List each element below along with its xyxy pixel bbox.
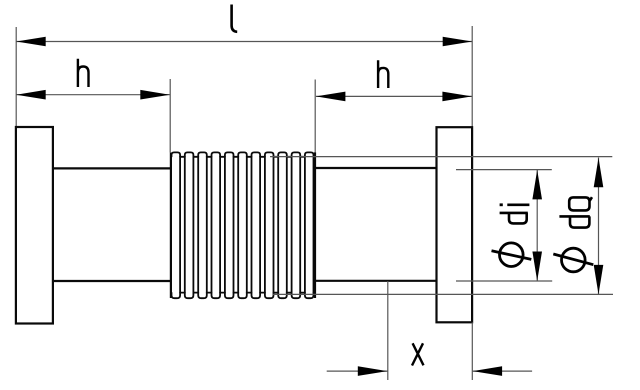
extension line right (l / h-right datum) [471,26,473,127]
dimension l line [16,41,472,43]
dimension da line [598,158,600,295]
label di : letter d (rotated) [500,213,528,224]
thread root segments top [180,156,305,158]
label da : diameter symbol [562,248,586,272]
label di : letter i (rotated) [500,203,503,206]
dimension l arrow right [443,37,473,47]
dimension da arrow down [594,265,604,295]
extension line da top [270,156,612,158]
right flange [437,127,473,322]
thread crest arcs bottom [172,292,314,298]
extension line X left [387,281,389,380]
extension line thread-left (h-left) [169,79,171,153]
label da : letter d (rotated) [559,216,589,227]
thread flank vertical lines [180,156,313,293]
dimension h right arrow left [316,92,346,102]
dimension h left line [16,94,170,96]
dimension h left arrow right [140,90,170,100]
label di : diameter symbol [500,243,524,267]
thread right edge [314,152,316,298]
dimension h left arrow left [16,90,46,100]
shaft left segment [53,167,171,169]
dimension di line [536,170,538,281]
thread left edge [170,153,172,298]
extension line X right [471,322,473,380]
dimension X arrow right-pointing [358,366,388,376]
dimension h right line [316,95,472,97]
thread root segments bottom [180,292,305,294]
dimension X arrow left-pointing [473,366,503,376]
extension line left (l / h-left datum) [15,27,17,127]
dimension da arrow up [594,158,604,188]
dimension X tail left [327,370,388,372]
left flange [16,127,53,324]
extension line da bottom [273,293,613,295]
label da : letter a (rotated) [569,197,592,210]
thread crest arcs top [172,152,314,157]
label X [412,343,424,365]
label h right [378,60,388,88]
shaft right segment [315,167,436,169]
dimension X tail right [472,370,532,372]
dimension di arrow down [532,252,542,282]
dimension l arrow left [16,37,46,47]
label l [232,5,238,32]
dimension di arrow up [532,170,542,200]
dimension h right arrow right [442,92,472,102]
extension line di bottom [456,280,552,282]
label h left [78,59,89,87]
extension line thread-right (h-right) [314,80,316,153]
extension line di top [456,169,552,171]
